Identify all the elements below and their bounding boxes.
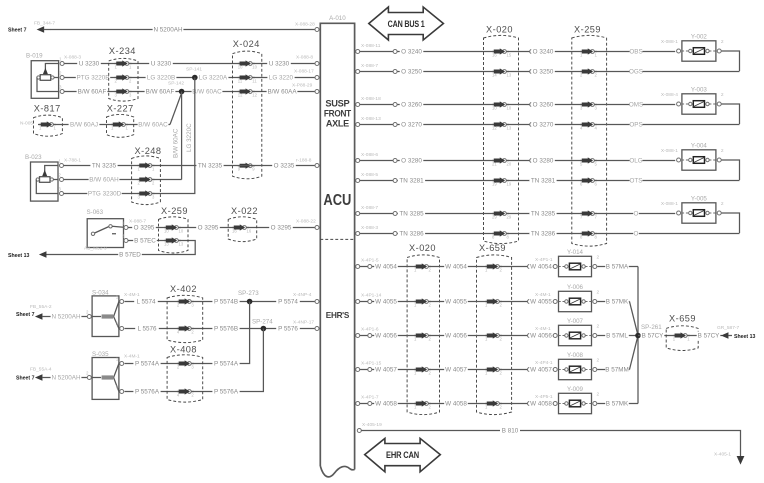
svg-text:X-088-22: X-088-22 <box>296 219 316 225</box>
svg-text:2: 2 <box>597 323 600 329</box>
svg-text:O 3250: O 3250 <box>533 69 554 76</box>
sensor B-019 <box>31 61 58 99</box>
label W 4056 (3) <box>529 332 553 340</box>
svg-text:2: 2 <box>429 371 432 376</box>
svg-text:L 5576: L 5576 <box>137 326 157 333</box>
label N 5200AH <box>153 26 184 34</box>
svg-text:29: 29 <box>507 215 512 220</box>
wire O 3250/OGS (valve return to ACU) <box>360 71 740 73</box>
return wire Y-004 <box>722 160 740 180</box>
svg-text:W 4054: W 4054 <box>530 264 552 271</box>
svg-text:W 4056: W 4056 <box>530 333 552 340</box>
label P 5574A (2) <box>212 360 239 368</box>
svg-text:Sheet 13: Sheet 13 <box>734 334 755 340</box>
svg-text:EHR CAN: EHR CAN <box>386 450 419 460</box>
label W 4057 (2) <box>444 366 468 374</box>
svg-text:O 3260: O 3260 <box>533 102 554 109</box>
svg-text:Y-008: Y-008 <box>567 352 584 359</box>
return wire B 57MK <box>597 403 638 405</box>
svg-text:2: 2 <box>429 405 432 410</box>
svg-text:X-088-6: X-088-6 <box>361 152 378 158</box>
diagonal wire to SP-142 <box>170 93 182 125</box>
svg-text:13: 13 <box>507 73 512 78</box>
label P 5574 <box>276 298 300 306</box>
wire PTG 3220B / LG 3220 <box>64 77 314 79</box>
return wire B 57MK <box>597 301 629 303</box>
switch S-035 <box>92 358 119 400</box>
return wire Y-003 <box>722 104 740 124</box>
svg-text:2: 2 <box>500 405 503 410</box>
wire P 5574A to SP-273 <box>125 302 250 364</box>
ACU pin TN 3281 <box>356 179 360 183</box>
svg-text:X-234: X-234 <box>109 46 136 56</box>
svg-text:X-088-17: X-088-17 <box>294 69 314 75</box>
wire O 3295 (S-063 to ACU) <box>128 227 315 229</box>
svg-text:1: 1 <box>129 65 132 70</box>
wire P 5576A to SP-274 <box>125 329 264 392</box>
label L 5576 <box>135 325 159 333</box>
vertical bus B 57 (to SP-261) <box>637 267 639 404</box>
svg-text:1: 1 <box>122 221 125 226</box>
svg-text:2: 2 <box>597 254 600 260</box>
splice O 3270 (2) <box>530 123 534 127</box>
label U 3230 (3) <box>267 60 291 68</box>
svg-text:10: 10 <box>252 65 257 70</box>
svg-text:X-088-11: X-088-11 <box>361 43 381 49</box>
wire L 5574 / P 5574 <box>125 301 315 303</box>
svg-text:B/W 60AC: B/W 60AC <box>138 122 168 129</box>
svg-text:Sheet 7: Sheet 7 <box>16 312 35 318</box>
contact X-259 row 2 <box>591 70 595 74</box>
contact X-248 pin3 <box>148 192 152 196</box>
contact X-020 row 6 <box>503 179 507 183</box>
svg-text:2: 2 <box>597 289 600 295</box>
connector X-020 (bottom) <box>407 255 439 415</box>
splice O 3240 (2) <box>530 50 534 54</box>
wire N 5200AH (to S-035) <box>49 377 89 379</box>
svg-text:X-402: X-402 <box>170 284 197 294</box>
label W 4058 (3) <box>529 400 553 408</box>
label TN 3286 (2) <box>529 230 556 238</box>
svg-text:X-248: X-248 <box>135 146 162 156</box>
svg-text:SUSP: SUSP <box>325 99 349 109</box>
contact X-020 row 7 <box>503 212 507 216</box>
svg-text:2: 2 <box>152 181 155 186</box>
svg-text:W 4055: W 4055 <box>445 299 467 306</box>
svg-text:O 3240: O 3240 <box>401 49 422 56</box>
splice O 3260 (2) <box>530 103 534 107</box>
svg-text:B 57ED: B 57ED <box>119 252 141 259</box>
svg-text:FB_55A-2: FB_55A-2 <box>30 304 52 310</box>
svg-text:14: 14 <box>492 73 497 78</box>
label LG 3220 <box>267 74 294 82</box>
svg-text:OBS: OBS <box>629 49 642 56</box>
svg-text:W 4056: W 4056 <box>375 333 397 340</box>
svg-text:Y-006: Y-006 <box>567 284 584 291</box>
svg-text:1: 1 <box>687 337 690 342</box>
splice W 4058 <box>368 402 372 406</box>
wire B 57CY (SP-261 to Sheet 13) <box>638 335 722 337</box>
svg-text:X-088-8: X-088-8 <box>296 55 313 61</box>
label OLG <box>630 157 643 165</box>
return wire B 57MM <box>597 369 629 371</box>
contact X-020(bottom) row 3 <box>425 334 429 338</box>
svg-text:W 4055: W 4055 <box>530 299 552 306</box>
connector X-248 <box>132 156 161 205</box>
svg-text:2: 2 <box>721 92 724 98</box>
svg-text:X-088-4: X-088-4 <box>661 92 678 98</box>
svg-text:TN 3235: TN 3235 <box>198 163 223 170</box>
label W 4054 (2) <box>444 263 468 271</box>
svg-text:O 3260: O 3260 <box>401 102 422 109</box>
ACU pin W 4058 <box>356 402 360 406</box>
ACU pin W 4056 <box>356 334 360 338</box>
svg-text:2: 2 <box>500 371 503 376</box>
svg-text:AB_M52-9: AB_M52-9 <box>84 246 107 252</box>
label O 3295 (2) <box>196 224 220 232</box>
label B/W 60AH <box>89 176 120 184</box>
svg-text:LG 3220A: LG 3220A <box>199 75 228 82</box>
svg-text:N 5200AH: N 5200AH <box>153 27 183 34</box>
label O 3280 (2) <box>531 157 555 165</box>
svg-text:3: 3 <box>595 106 598 111</box>
svg-text:B/W 60AA: B/W 60AA <box>267 89 297 96</box>
svg-text:8: 8 <box>507 235 510 240</box>
label B 57MK <box>605 400 629 408</box>
switch S-034 <box>92 296 119 337</box>
contact X-659(bottom) row 3 <box>496 334 500 338</box>
svg-text:TN 3281: TN 3281 <box>399 178 424 185</box>
svg-text:12: 12 <box>238 93 243 98</box>
svg-text:L 5574: L 5574 <box>136 299 156 306</box>
svg-text:O 3270: O 3270 <box>533 122 554 129</box>
wire TN 3286/O (valve return to ACU) <box>360 233 740 235</box>
wire TN 3235 / O 3235 (B-023 to ACU) <box>64 165 315 167</box>
wire W 4056 (ACU to valve) <box>360 335 554 337</box>
label L 5574 <box>134 298 158 306</box>
svg-text:W 4058: W 4058 <box>530 401 552 408</box>
svg-text:X-4P5-1: X-4P5-1 <box>535 394 553 400</box>
svg-text:W 4057: W 4057 <box>530 367 552 374</box>
svg-text:TN 3286: TN 3286 <box>531 231 556 238</box>
label B/W 60AF <box>77 88 108 96</box>
label TN 3285 (2) <box>529 210 556 218</box>
svg-text:3: 3 <box>191 303 194 308</box>
svg-text:Sheet 7: Sheet 7 <box>16 376 35 382</box>
svg-text:21: 21 <box>492 162 497 167</box>
svg-text:X-088-3: X-088-3 <box>361 225 378 231</box>
label B 57MM <box>605 366 629 374</box>
return wire B 57MA <box>597 266 638 268</box>
label TN 3285 <box>398 210 425 218</box>
label TN 3281 (2) <box>529 177 556 185</box>
svg-text:A-010: A-010 <box>329 15 346 22</box>
label B 57ML <box>605 332 629 340</box>
wire N 5200AH <box>51 29 316 31</box>
svg-text:3: 3 <box>59 85 62 90</box>
ECU A-010 control unit box <box>320 23 354 469</box>
splice W 4054 <box>368 265 372 269</box>
svg-text:Y-007: Y-007 <box>567 318 584 325</box>
ACU pin TN 3286 <box>356 232 360 236</box>
contact X-024 pin4 <box>248 164 252 168</box>
ACU pin LG 3220 <box>315 76 319 80</box>
svg-text:2: 2 <box>500 337 503 342</box>
splice W 4054 (2) <box>528 265 532 269</box>
wire B 810 <box>361 431 740 457</box>
wire W 4055 (ACU to valve) <box>360 301 554 303</box>
svg-text:P 5574: P 5574 <box>278 299 298 306</box>
label P 5574B <box>212 298 239 306</box>
svg-text:X-659: X-659 <box>669 314 696 324</box>
contact X-024 pin2 <box>248 76 252 80</box>
label LG 3220B <box>146 74 177 82</box>
label B 57MA <box>605 263 629 271</box>
splice W 4057 <box>368 368 372 372</box>
svg-text:2: 2 <box>721 148 724 154</box>
splice TN 3281 (2) <box>530 179 534 183</box>
svg-text:Y-014: Y-014 <box>567 249 584 256</box>
wire B 57EC / B 57ED to Sheet 13 <box>46 241 195 255</box>
contact X-020 row 1 <box>503 50 507 54</box>
svg-text:P 5574B: P 5574B <box>214 299 238 306</box>
svg-text:P 5574A: P 5574A <box>214 361 239 368</box>
svg-text:B 57MK: B 57MK <box>606 299 629 306</box>
svg-text:X-4NP-17: X-4NP-17 <box>293 320 314 326</box>
contact X-020(bottom) row 1 <box>425 265 429 269</box>
label B/W 60AC <box>192 88 223 96</box>
svg-text:X-4M-1: X-4M-1 <box>535 326 551 332</box>
splice O 3260 <box>393 103 397 107</box>
ACU pin W 4057 <box>356 368 360 372</box>
svg-text:N-005: N-005 <box>20 121 33 127</box>
label OPS <box>630 121 643 129</box>
svg-text:SP-274: SP-274 <box>252 319 273 326</box>
svg-text:2: 2 <box>500 303 503 308</box>
svg-text:10: 10 <box>507 106 512 111</box>
svg-text:2: 2 <box>597 391 600 397</box>
svg-text:PTG 3230D: PTG 3230D <box>88 191 122 198</box>
svg-text:O 3295: O 3295 <box>134 225 155 232</box>
label TN 3235 <box>90 162 117 170</box>
svg-text:O 3235: O 3235 <box>274 163 295 170</box>
svg-text:B 810: B 810 <box>502 428 519 435</box>
label W 4054 (3) <box>529 263 553 271</box>
splice W 4055 <box>368 300 372 304</box>
ACU pin W 4054 <box>356 265 360 269</box>
ACU pin (N 5200AH) <box>315 28 319 32</box>
svg-text:O 3270: O 3270 <box>401 122 422 129</box>
label B 57CY (2) <box>697 332 721 340</box>
contact X-259L pin1 <box>175 226 179 230</box>
wire TN 3281/OTS (valve return to ACU) <box>360 180 740 182</box>
label O <box>633 230 639 238</box>
svg-text:B/W 60AH: B/W 60AH <box>89 177 119 184</box>
contact X-259 row 7 <box>591 212 595 216</box>
contact X-817 pin1 <box>50 123 54 127</box>
label O 3240 <box>400 48 424 56</box>
svg-text:W 4057: W 4057 <box>445 367 467 374</box>
svg-text:OTS: OTS <box>630 178 643 185</box>
splice O 3250 (2) <box>530 70 534 74</box>
svg-text:X-088-1: X-088-1 <box>661 148 678 154</box>
contact X-020(bottom) row 4 <box>425 368 429 372</box>
label W 4058 (2) <box>444 400 468 408</box>
label P 5576A (2) <box>212 388 239 396</box>
valve Y-006 <box>559 291 592 311</box>
svg-text:W 4056: W 4056 <box>445 333 467 340</box>
ACU pin O 3270 <box>356 123 360 127</box>
svg-text:X-4M-1: X-4M-1 <box>124 292 140 298</box>
label B/W 60AA <box>267 88 298 96</box>
connector X-022 <box>228 217 257 242</box>
svg-text:r-188-8: r-188-8 <box>296 158 312 164</box>
contact X-020 row 8 <box>503 232 507 236</box>
label B 57EC <box>133 237 157 245</box>
ACU section divider <box>320 238 354 240</box>
contact X-259 row 4 <box>591 123 595 127</box>
svg-text:4: 4 <box>595 126 598 131</box>
splice W 4057 (2) <box>528 368 532 372</box>
svg-text:TN 3286: TN 3286 <box>399 231 424 238</box>
svg-text:TN 3281: TN 3281 <box>531 178 556 185</box>
svg-text:W 4058: W 4058 <box>445 401 467 408</box>
connector X-817 <box>34 115 63 136</box>
ACU pin O 3240 <box>356 50 360 54</box>
wire O 3270/OPS (valve return to ACU) <box>360 124 740 126</box>
svg-text:12: 12 <box>252 93 257 98</box>
svg-text:S-063: S-063 <box>87 209 104 216</box>
svg-text:B/W 60AC: B/W 60AC <box>192 89 222 96</box>
svg-text:W 4054: W 4054 <box>375 264 397 271</box>
junction SP-261 <box>635 333 641 339</box>
wire TN 3285/O (ACU to valve) <box>360 213 676 215</box>
svg-text:16: 16 <box>232 229 237 234</box>
label TN 3235 (2) <box>196 162 223 170</box>
label P 5576A <box>133 388 160 396</box>
contact X-234 pin3 <box>125 90 129 94</box>
svg-text:W 4055: W 4055 <box>375 299 397 306</box>
svg-text:3: 3 <box>152 195 155 200</box>
svg-text:O 3280: O 3280 <box>533 158 554 165</box>
svg-text:2: 2 <box>597 357 600 363</box>
svg-text:6: 6 <box>595 182 598 187</box>
label TN 3281 <box>398 177 425 185</box>
wire N 5200AH (to S-034) <box>49 316 89 318</box>
wire O 3280/OLG (ACU to valve) <box>360 160 676 162</box>
splice TN 3285 <box>393 212 397 216</box>
label B/W 60AF (2) <box>145 88 176 96</box>
label O 3295 <box>132 224 156 232</box>
svg-text:16: 16 <box>492 53 497 58</box>
svg-text:2: 2 <box>429 337 432 342</box>
contact X-408 pin1 <box>187 362 191 366</box>
svg-text:X-259: X-259 <box>161 206 188 216</box>
svg-text:X-788-1: X-788-1 <box>64 158 81 164</box>
svg-text:SP-273: SP-273 <box>238 290 259 297</box>
ACU pin O 3295 <box>315 226 319 230</box>
label B 57CY <box>641 332 665 340</box>
svg-text:PTG 3220B: PTG 3220B <box>77 75 110 82</box>
connector X-234 <box>109 58 138 101</box>
svg-text:P 5576B: P 5576B <box>214 326 238 333</box>
contact X-024 pin3 <box>248 90 252 94</box>
svg-text:X-088-28: X-088-28 <box>295 22 315 28</box>
splice O 3280 (2) <box>530 159 534 163</box>
label B 57MK <box>605 298 629 306</box>
wire B/W 60AH <box>64 179 182 181</box>
svg-text:X-4P4-1: X-4P4-1 <box>535 360 553 366</box>
svg-text:1: 1 <box>54 126 57 131</box>
contact X-248 pin2 <box>148 178 152 182</box>
connector X-402 <box>167 295 203 342</box>
contact X-259 row 3 <box>591 103 595 107</box>
contact X-659(bottom) row 1 <box>496 265 500 269</box>
svg-text:29: 29 <box>492 215 497 220</box>
svg-text:W 4054: W 4054 <box>445 264 467 271</box>
svg-text:3: 3 <box>59 187 62 192</box>
label O 3260 (2) <box>531 101 555 109</box>
svg-text:2: 2 <box>191 393 194 398</box>
svg-text:B 57MK: B 57MK <box>606 401 629 408</box>
splice W 4055 (2) <box>528 300 532 304</box>
sensor B-023 <box>31 162 59 201</box>
svg-text:16: 16 <box>247 229 252 234</box>
wire W 4054 (ACU to valve) <box>360 266 554 268</box>
vertical wire B/W 60AC <box>181 92 183 180</box>
ACU pin O 3250 <box>356 70 360 74</box>
label U 3230 (2) <box>149 60 173 68</box>
ACU pin B 810 <box>357 429 361 433</box>
svg-text:GR_587-7: GR_587-7 <box>717 325 739 331</box>
connector X-659 (bottom) <box>477 255 512 415</box>
splice O 3280 <box>393 159 397 163</box>
svg-text:B/W 60AJ: B/W 60AJ <box>70 122 98 129</box>
splice O 3240 <box>393 50 397 54</box>
svg-text:O: O <box>634 211 639 218</box>
svg-text:1: 1 <box>59 57 62 62</box>
svg-text:3: 3 <box>122 234 125 239</box>
svg-text:OMS: OMS <box>629 102 643 109</box>
junction SP-274 <box>261 326 267 332</box>
svg-text:13: 13 <box>179 242 184 247</box>
label PTG 3220B <box>76 74 110 82</box>
svg-text:13: 13 <box>507 126 512 131</box>
svg-text:X-088-7: X-088-7 <box>361 63 378 69</box>
ACU pin P 5574 <box>315 300 319 304</box>
label P 5574A <box>133 360 160 368</box>
label O 3250 <box>400 68 424 76</box>
svg-text:X-408: X-408 <box>170 345 197 355</box>
svg-text:X-020: X-020 <box>409 243 436 253</box>
svg-text:Y-009: Y-009 <box>567 386 584 393</box>
contact X-020 row 3 <box>503 103 507 107</box>
splice W 4058 (2) <box>528 402 532 406</box>
connector X-020 (top) <box>484 35 519 243</box>
contact X-408 pin2 <box>187 390 191 394</box>
svg-text:B/W 60AC: B/W 60AC <box>173 128 180 158</box>
svg-text:FRONT: FRONT <box>324 109 352 119</box>
label O 3260 <box>400 101 424 109</box>
svg-text:X-405-19: X-405-19 <box>362 422 382 428</box>
svg-text:X-4P1-1: X-4P1-1 <box>535 257 553 263</box>
contact X-259 row 6 <box>591 179 595 183</box>
svg-text:X-088-7: X-088-7 <box>361 205 378 211</box>
contact X-259 row 5 <box>591 159 595 163</box>
contact X-259 row 1 <box>591 50 595 54</box>
svg-text:X-405-1: X-405-1 <box>714 452 731 458</box>
svg-text:2: 2 <box>721 201 724 207</box>
